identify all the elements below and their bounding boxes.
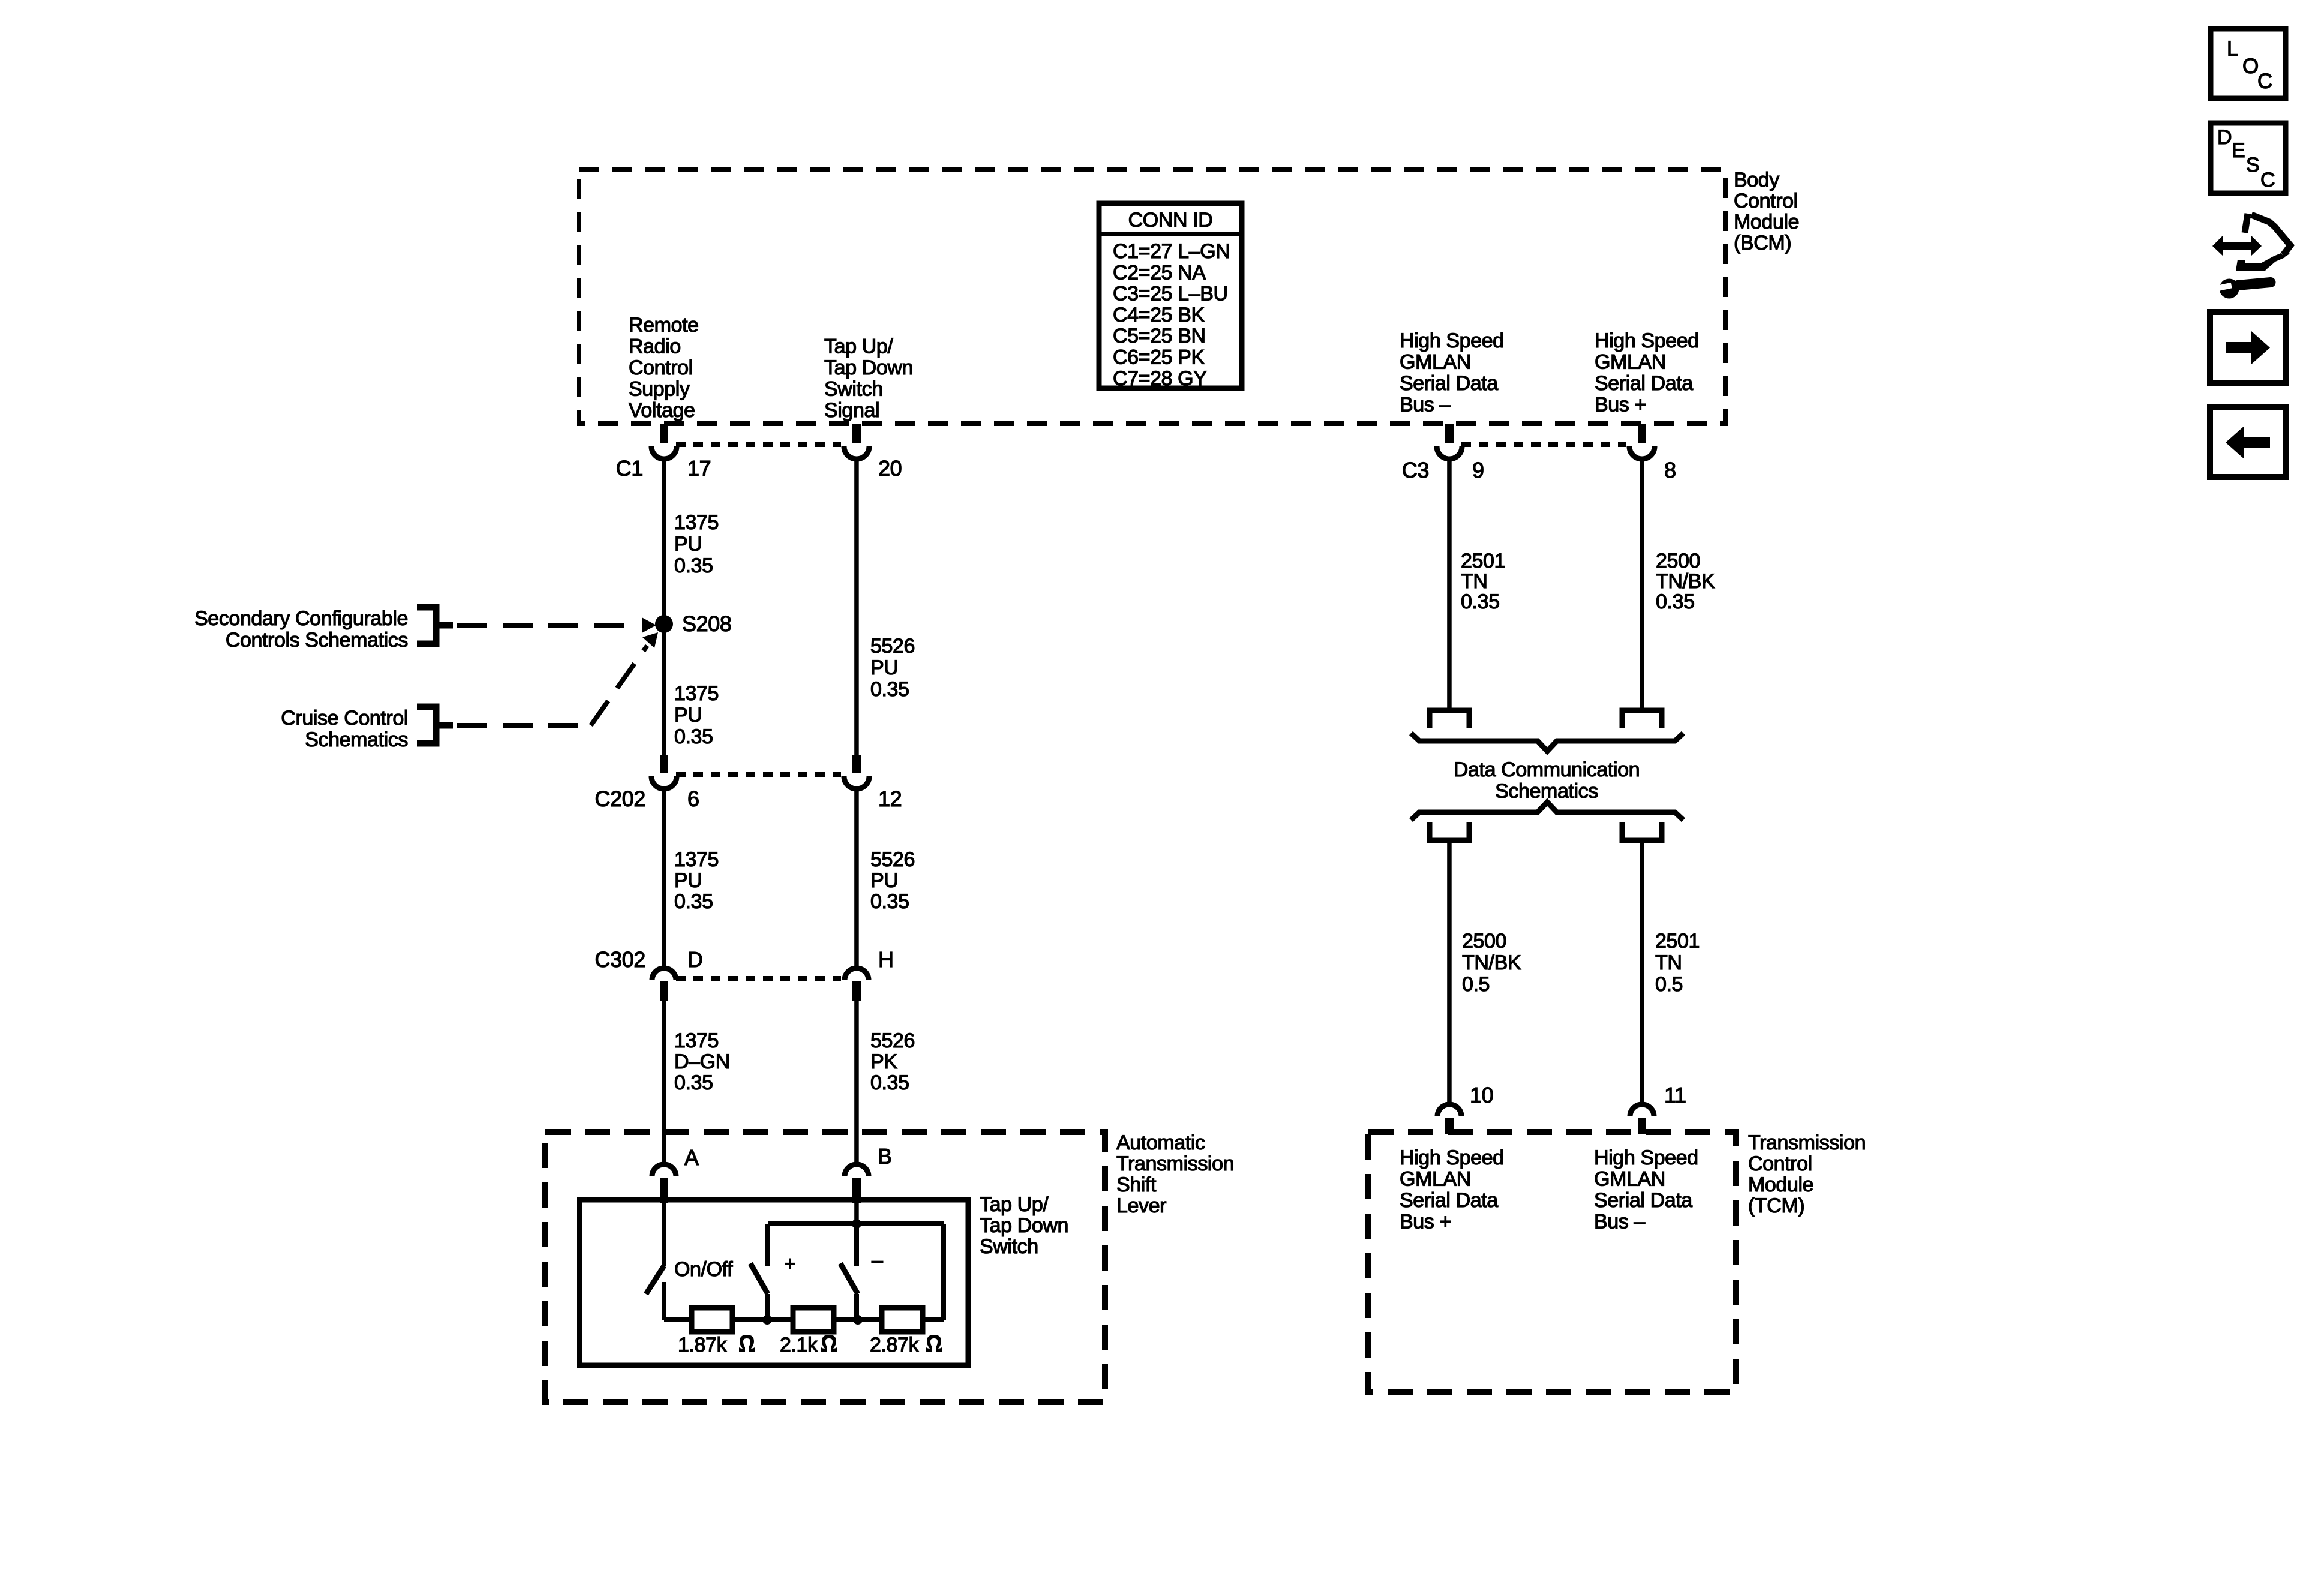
svg-text:20: 20 — [878, 456, 902, 481]
svg-text:1375: 1375 — [674, 848, 719, 871]
svg-text:Signal: Signal — [824, 399, 879, 422]
svg-text:C5=25 BN: C5=25 BN — [1113, 325, 1206, 347]
svg-text:(TCM): (TCM) — [1748, 1194, 1804, 1217]
svg-text:PK: PK — [870, 1050, 897, 1073]
svg-text:Supply: Supply — [629, 378, 690, 401]
svg-text:GMLAN: GMLAN — [1400, 351, 1471, 374]
svg-text:E: E — [2232, 139, 2245, 162]
svg-text:0.35: 0.35 — [1461, 590, 1500, 613]
svg-text:–: – — [872, 1249, 883, 1272]
svg-text:Serial Data: Serial Data — [1595, 372, 1693, 395]
svg-text:Bus –: Bus – — [1400, 394, 1451, 416]
svg-text:TN: TN — [1461, 570, 1488, 593]
svg-text:Lever: Lever — [1116, 1194, 1166, 1217]
svg-text:Serial Data: Serial Data — [1400, 1189, 1498, 1212]
svg-text:Transmission: Transmission — [1116, 1152, 1234, 1175]
svg-text:C: C — [2260, 169, 2275, 191]
svg-text:O: O — [2242, 55, 2259, 78]
svg-text:C6=25 PK: C6=25 PK — [1113, 346, 1205, 369]
svg-text:C1: C1 — [616, 456, 643, 481]
svg-text:A: A — [684, 1145, 699, 1170]
svg-text:0.5: 0.5 — [1462, 973, 1490, 996]
svg-text:GMLAN: GMLAN — [1594, 1168, 1665, 1191]
svg-text:1.87k: 1.87k — [678, 1334, 728, 1356]
svg-text:Tap Down: Tap Down — [980, 1214, 1068, 1237]
svg-text:Radio: Radio — [629, 335, 681, 358]
svg-text:Tap Up/: Tap Up/ — [980, 1193, 1049, 1216]
svg-text:2501: 2501 — [1461, 550, 1505, 572]
svg-text:+: + — [784, 1253, 795, 1275]
svg-text:Remote: Remote — [629, 314, 699, 337]
svg-text:8: 8 — [1664, 458, 1676, 482]
svg-text:TN/BK: TN/BK — [1656, 570, 1715, 593]
svg-text:TN: TN — [1655, 951, 1682, 974]
svg-text:0.35: 0.35 — [674, 890, 713, 913]
svg-text:Body: Body — [1734, 169, 1779, 191]
svg-text:On/Off: On/Off — [674, 1258, 733, 1281]
svg-text:Tap Down: Tap Down — [824, 356, 913, 379]
svg-text:TN/BK: TN/BK — [1462, 951, 1521, 974]
svg-text:D: D — [2217, 126, 2232, 149]
svg-text:2.1k: 2.1k — [780, 1334, 818, 1356]
svg-text:C302: C302 — [595, 947, 645, 972]
svg-text:0.35: 0.35 — [1656, 590, 1695, 613]
svg-text:H: H — [878, 947, 894, 972]
svg-text:0.35: 0.35 — [674, 725, 713, 748]
svg-text:GMLAN: GMLAN — [1400, 1168, 1471, 1191]
svg-text:0.35: 0.35 — [870, 678, 909, 701]
svg-text:0.35: 0.35 — [870, 890, 909, 913]
svg-text:1375: 1375 — [674, 511, 719, 534]
svg-text:C3: C3 — [1402, 458, 1429, 482]
svg-text:Serial Data: Serial Data — [1594, 1189, 1692, 1212]
svg-text:High Speed: High Speed — [1594, 1146, 1698, 1169]
svg-text:Control: Control — [1748, 1152, 1812, 1175]
svg-text:Transmission: Transmission — [1748, 1131, 1866, 1154]
svg-text:L: L — [2227, 37, 2238, 61]
svg-text:Schematics: Schematics — [1495, 780, 1598, 803]
svg-text:Serial Data: Serial Data — [1400, 372, 1498, 395]
svg-text:12: 12 — [878, 786, 902, 811]
svg-text:9: 9 — [1472, 458, 1484, 482]
svg-text:11: 11 — [1664, 1083, 1686, 1107]
svg-text:Data Communication: Data Communication — [1454, 758, 1640, 781]
svg-text:CONN ID: CONN ID — [1128, 209, 1213, 232]
svg-text:B: B — [878, 1144, 892, 1169]
svg-text:10: 10 — [1470, 1083, 1493, 1107]
svg-text:C202: C202 — [595, 786, 645, 811]
svg-text:17: 17 — [687, 456, 711, 481]
svg-text:5526: 5526 — [870, 848, 915, 871]
svg-text:S: S — [2246, 154, 2259, 176]
svg-text:S208: S208 — [682, 611, 731, 636]
svg-text:Tap Up/: Tap Up/ — [824, 335, 893, 358]
svg-text:High Speed: High Speed — [1595, 329, 1699, 352]
svg-text:Module: Module — [1734, 211, 1799, 233]
svg-text:High Speed: High Speed — [1400, 329, 1504, 352]
svg-text:2500: 2500 — [1656, 550, 1700, 572]
svg-text:High Speed: High Speed — [1400, 1146, 1504, 1169]
svg-text:5526: 5526 — [870, 1029, 915, 1052]
svg-text:0.35: 0.35 — [870, 1071, 909, 1094]
svg-text:GMLAN: GMLAN — [1595, 351, 1666, 374]
svg-text:Bus +: Bus + — [1400, 1211, 1451, 1233]
svg-text:Voltage: Voltage — [629, 399, 695, 422]
svg-text:0.5: 0.5 — [1655, 973, 1683, 996]
svg-text:PU: PU — [674, 533, 702, 556]
svg-text:Switch: Switch — [980, 1235, 1038, 1258]
svg-text:PU: PU — [870, 869, 898, 892]
svg-text:Cruise Control: Cruise Control — [281, 707, 408, 730]
svg-text:Switch: Switch — [824, 378, 883, 401]
svg-text:PU: PU — [674, 704, 702, 727]
svg-text:Automatic: Automatic — [1116, 1131, 1205, 1154]
svg-text:Schematics: Schematics — [305, 728, 408, 751]
svg-text:6: 6 — [687, 786, 699, 811]
svg-text:C7=28 GY: C7=28 GY — [1113, 367, 1207, 390]
svg-text:Bus –: Bus – — [1594, 1211, 1645, 1233]
svg-text:Control: Control — [629, 356, 693, 379]
svg-text:2501: 2501 — [1655, 930, 1700, 953]
svg-text:0.35: 0.35 — [674, 1071, 713, 1094]
svg-text:PU: PU — [674, 869, 702, 892]
svg-text:0.35: 0.35 — [674, 554, 713, 577]
svg-text:C2=25 NA: C2=25 NA — [1113, 261, 1206, 284]
svg-text:C1=27 L–GN: C1=27 L–GN — [1113, 240, 1230, 263]
svg-text:1375: 1375 — [674, 682, 719, 705]
svg-text:C: C — [2257, 70, 2272, 93]
svg-text:Controls Schematics: Controls Schematics — [226, 629, 408, 652]
svg-text:Shift: Shift — [1116, 1173, 1157, 1196]
svg-text:Secondary Configurable: Secondary Configurable — [194, 607, 408, 630]
svg-text:PU: PU — [870, 656, 898, 679]
svg-text:Bus +: Bus + — [1595, 394, 1646, 416]
svg-text:Module: Module — [1748, 1173, 1813, 1196]
svg-text:5526: 5526 — [870, 635, 915, 658]
svg-text:2.87k: 2.87k — [870, 1334, 920, 1356]
svg-text:D: D — [687, 947, 703, 972]
svg-text:C3=25 L–BU: C3=25 L–BU — [1113, 283, 1228, 305]
svg-text:(BCM): (BCM) — [1734, 232, 1791, 254]
svg-text:Control: Control — [1734, 190, 1798, 212]
svg-text:C4=25 BK: C4=25 BK — [1113, 304, 1205, 326]
svg-text:1375: 1375 — [674, 1029, 719, 1052]
svg-text:D–GN: D–GN — [674, 1050, 730, 1073]
svg-text:2500: 2500 — [1462, 930, 1506, 953]
